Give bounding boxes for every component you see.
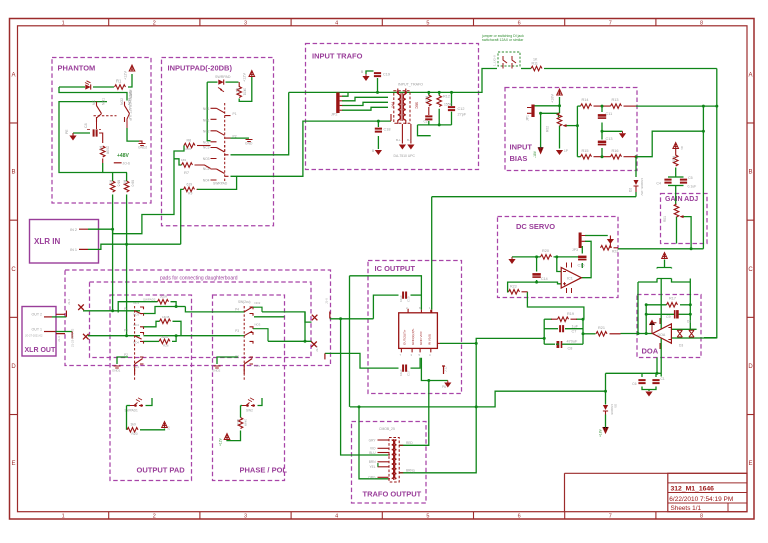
svg-text:R17: R17 xyxy=(669,297,676,301)
svg-text:R18: R18 xyxy=(672,156,676,162)
svg-text:D3: D3 xyxy=(679,344,683,348)
daughterboard pads inner box xyxy=(90,282,312,358)
transformer T2 output trafo xyxy=(392,439,397,480)
svg-text:P6: P6 xyxy=(442,385,446,389)
wire bias center bus xyxy=(576,106,578,157)
svg-text:GND VCC: GND VCC xyxy=(419,330,423,345)
svg-text:R12: R12 xyxy=(443,95,450,99)
wire pads row2 XLR OUT xyxy=(44,331,56,333)
resistor R1 xyxy=(115,85,126,90)
svg-text:6: 6 xyxy=(518,514,521,520)
svg-text:619: 619 xyxy=(187,183,193,187)
svg-text:R15: R15 xyxy=(582,149,589,153)
svg-text:C: C xyxy=(11,267,16,273)
resistor R15 xyxy=(581,154,592,159)
wire gain pot to rail xyxy=(683,217,691,249)
svg-text:SEC: SEC xyxy=(415,102,419,109)
wire DOA out down xyxy=(656,358,658,374)
transformer T1 input trafo xyxy=(398,89,406,125)
wire R10 top xyxy=(428,92,430,95)
wire P3 row to input trafo top xyxy=(231,92,289,154)
diodes D8 D9 DOA xyxy=(677,330,682,337)
svg-text:1uF: 1uF xyxy=(572,325,579,329)
svg-text:2U: 2U xyxy=(167,426,171,430)
wire to DOA output caps xyxy=(606,372,662,374)
wire swrpad xyxy=(207,81,217,83)
svg-text:GND: GND xyxy=(245,142,253,146)
T2 yel jog xyxy=(377,463,379,467)
ground GND2 phase xyxy=(214,366,221,368)
svg-text:D2: D2 xyxy=(629,188,633,192)
diode LED SWRPAD inputpad xyxy=(218,80,223,85)
wire phase rows inner xyxy=(253,307,262,312)
svg-text:R2: R2 xyxy=(235,88,239,92)
svg-text:JP1: JP1 xyxy=(526,115,530,121)
wire R20 to arrow xyxy=(140,429,165,430)
wire R13 to +12V xyxy=(227,431,241,441)
PHANTOM box xyxy=(52,58,151,204)
svg-text:NO2: NO2 xyxy=(255,301,261,305)
wire R7 tap xyxy=(174,159,182,165)
wire pad row2 xyxy=(88,335,140,337)
svg-text:B-L: B-L xyxy=(396,138,401,142)
svg-text:NC1: NC1 xyxy=(133,365,139,369)
wire R19 block right bus xyxy=(582,319,584,344)
svg-text:U1: U1 xyxy=(680,146,684,150)
pin J1-1 xyxy=(65,311,67,317)
svg-text:21-23-2051-02: 21-23-2051-02 xyxy=(71,328,75,347)
resistor R20 xyxy=(541,255,552,260)
wire R19 block left bus xyxy=(543,319,545,344)
resistor R4 xyxy=(100,146,105,157)
DC SERVO box xyxy=(498,217,619,298)
connector JP1 xyxy=(531,105,534,118)
connector JP2 xyxy=(336,93,339,114)
svg-text:D: D xyxy=(748,364,753,370)
wire IC out row xyxy=(440,342,476,344)
svg-text:XLR OUT: XLR OUT xyxy=(25,347,56,354)
node trafo red riser xyxy=(427,379,430,382)
wire DOA output row xyxy=(621,333,653,335)
switch SW2 phase xyxy=(242,403,255,406)
IC U1 output body xyxy=(399,313,438,349)
svg-text:NC4: NC4 xyxy=(133,323,139,327)
svg-text:IC OUTPUT: IC OUTPUT xyxy=(375,264,416,273)
svg-text:R13: R13 xyxy=(612,98,619,102)
ground C11C13 tap xyxy=(619,133,626,138)
svg-text:2: 2 xyxy=(153,514,156,520)
capacitor C13 xyxy=(598,141,606,145)
wire IC pin to gnd xyxy=(421,358,447,381)
svg-text:ORG: ORG xyxy=(368,476,376,480)
svg-text:6/22/2010 7:54:19 PM: 6/22/2010 7:54:19 PM xyxy=(669,496,733,503)
wire R6 top xyxy=(126,173,128,182)
resistor R11 xyxy=(531,66,542,71)
wire phase P2 gnd xyxy=(217,357,238,364)
svg-text:R5: R5 xyxy=(109,180,113,184)
wire XLR IN pin2 xyxy=(88,228,113,230)
svg-text:J 1J: J 1J xyxy=(444,366,448,372)
node gain pot tap xyxy=(690,247,693,250)
resistor R2 xyxy=(237,87,242,98)
wire pads row1 XLR OUT xyxy=(44,316,52,318)
svg-text:J1-5: J1-5 xyxy=(315,346,319,352)
svg-text:SWRPAD: SWRPAD xyxy=(213,182,228,186)
supply +18V down arrow xyxy=(603,427,609,433)
supply arrow +18V R18 xyxy=(673,143,679,149)
svg-text:8: 8 xyxy=(700,20,703,26)
wire phase row1 in xyxy=(240,311,244,313)
PHASE/POL box xyxy=(213,295,285,481)
wire trafo pri bottom jog xyxy=(390,114,392,121)
wire JP3 pin1 xyxy=(585,235,608,237)
node brn riser top xyxy=(475,342,478,345)
svg-text:68-0: 68-0 xyxy=(131,180,135,187)
ground under C18 xyxy=(375,150,382,155)
pin JP4 xyxy=(442,366,445,374)
svg-text:Sheets 1/1: Sheets 1/1 xyxy=(671,505,702,512)
svg-text:C7: C7 xyxy=(572,330,577,334)
resistor R25 loop xyxy=(158,299,169,304)
INPUT TRAFO box xyxy=(306,44,479,170)
svg-text:BRNg: BRNg xyxy=(406,469,415,473)
svg-text:GAIN ADJ: GAIN ADJ xyxy=(665,196,698,203)
connector XLR OUT box xyxy=(22,307,56,357)
svg-text:249R: 249R xyxy=(244,419,248,427)
ground arrows under T1 xyxy=(399,145,406,150)
svg-text:R13: R13 xyxy=(236,419,240,425)
svg-text:+18V: +18V xyxy=(599,428,603,437)
svg-text:C17: C17 xyxy=(407,370,411,376)
ground ic output xyxy=(444,383,451,388)
svg-text:C2: C2 xyxy=(424,120,428,124)
T2 right pins xyxy=(399,445,403,473)
resistor R22 servo xyxy=(601,246,612,251)
node IN1 junction xyxy=(125,243,128,246)
svg-text:1: 1 xyxy=(62,514,65,520)
wire R2 top xyxy=(238,82,240,87)
wire R19 row xyxy=(544,318,552,320)
op-amp U2 DOA (points left) xyxy=(653,324,672,343)
svg-text:P1: P1 xyxy=(233,112,237,116)
output pad switch link xyxy=(134,306,136,380)
wire input bias out row xyxy=(636,105,717,107)
svg-text:1_IJO-9: 1_IJO-9 xyxy=(493,55,497,66)
svg-text:5: 5 xyxy=(426,514,429,520)
wire C12 bottom xyxy=(451,112,453,125)
resistor R9 xyxy=(184,187,195,192)
wire IN1 riser to R9 xyxy=(181,189,184,244)
supply arrow C1C3 xyxy=(662,253,668,259)
wire IC input riser xyxy=(431,197,433,310)
svg-text:2: 2 xyxy=(153,20,156,26)
svg-text:1K06: 1K06 xyxy=(184,147,191,151)
resistor R13 xyxy=(611,104,622,109)
wire right rail down to DOA xyxy=(704,69,717,338)
ground under pot xyxy=(556,150,563,155)
svg-text:JO-6: JO-6 xyxy=(123,162,130,166)
wire R9 to P4 riser xyxy=(197,176,237,189)
capacitor C5 xyxy=(680,180,687,183)
svg-text:SWPAD2: SWPAD2 xyxy=(143,298,156,302)
svg-text:A: A xyxy=(11,72,15,78)
svg-text:C14: C14 xyxy=(541,277,548,281)
wire pad row1 exit xyxy=(185,307,240,312)
resistor R10 xyxy=(427,95,432,106)
wire IC OUTPUT left row1 xyxy=(330,316,332,318)
node C19 junction xyxy=(376,91,379,94)
supply +12V inputpad xyxy=(249,71,255,77)
wire C4C5 rails xyxy=(668,176,684,178)
svg-text:R02: R02 xyxy=(546,126,550,132)
row ticks left/right xyxy=(10,122,18,124)
svg-text:NC3: NC3 xyxy=(203,146,210,150)
wire R5 top xyxy=(112,173,114,182)
wire phantom sw2 to gnd xyxy=(127,128,139,141)
svg-text:R14: R14 xyxy=(582,98,589,102)
wire R12 bottom xyxy=(438,109,440,125)
jack dashed box xyxy=(498,52,520,66)
wire IC OUTPUT pads row1 entry xyxy=(254,316,285,318)
svg-text:392R: 392R xyxy=(161,335,169,339)
wire bias pot gnd xyxy=(559,126,561,149)
wire C14 vertical xyxy=(536,257,538,272)
wire IC bottom cap to pin xyxy=(411,358,421,368)
svg-text:OUT 1: OUT 1 xyxy=(31,328,42,332)
svg-text:JO-27-2021-02: JO-27-2021-02 xyxy=(25,334,43,338)
wire sw2 xyxy=(241,405,243,407)
wire R15/R16 out row xyxy=(636,131,703,157)
pin row to IC OUTPUT xyxy=(329,312,331,319)
wire servo arrow to R22 xyxy=(609,244,611,248)
svg-text:R20: R20 xyxy=(132,432,138,436)
svg-text:RED: RED xyxy=(406,441,413,445)
svg-text:A: A xyxy=(748,72,752,78)
svg-text:27pF: 27pF xyxy=(458,113,467,117)
wire R5 to XLR IN / pad row1 riser xyxy=(112,195,114,311)
svg-text:TRAFO OUTPUT: TRAFO OUTPUT xyxy=(363,490,422,499)
svg-text:7: 7 xyxy=(609,514,612,520)
DOA box xyxy=(637,295,701,358)
wire +48V node xyxy=(102,163,104,173)
svg-text:R6: R6 xyxy=(123,180,127,184)
svg-text:GND(3)(4)5-: GND(3)(4)5- xyxy=(411,328,415,345)
ground GND1 output pad xyxy=(114,366,121,368)
svg-text:C9: C9 xyxy=(666,315,670,319)
ground GND inputpad xyxy=(246,140,253,142)
wire phase row2 in xyxy=(240,335,244,337)
svg-text:+18V: +18V xyxy=(551,94,555,103)
pad pin row3 xyxy=(324,353,326,359)
svg-text:GND2: GND2 xyxy=(138,146,147,150)
wire pad P2 gnd xyxy=(117,357,128,364)
wire servo R20 row xyxy=(512,256,541,258)
svg-text:B: B xyxy=(372,149,374,153)
wire D2 to ic riser row xyxy=(635,192,637,197)
svg-text:C4: C4 xyxy=(656,182,661,186)
svg-text:R9: R9 xyxy=(188,192,192,196)
svg-text:J1-3: J1-3 xyxy=(57,336,61,342)
wire R6 to XLR IN / pad row2 riser xyxy=(126,195,128,336)
svg-text:GND1: GND1 xyxy=(112,369,121,373)
ic out stub xyxy=(437,342,440,344)
wire D2 feed xyxy=(635,157,637,177)
wire C11 C13 bus xyxy=(601,106,603,112)
ground at C19 xyxy=(362,76,369,81)
IC OUTPUT box xyxy=(368,261,462,394)
node pad row1 xyxy=(111,309,114,312)
svg-text:JP2: JP2 xyxy=(331,113,338,117)
wire trafo red riser xyxy=(399,381,429,446)
wire phantom left rail xyxy=(59,102,127,173)
wire C7 row xyxy=(544,328,558,330)
svg-text:R16: R16 xyxy=(612,149,619,153)
capacitor C14 xyxy=(532,273,540,277)
svg-text:pads for connecting daughterbo: pads for connecting daughterboard xyxy=(160,276,238,282)
svg-text:NO3: NO3 xyxy=(255,323,261,327)
svg-text:R19: R19 xyxy=(567,312,574,316)
resistor R23 xyxy=(509,290,520,295)
svg-text:C8: C8 xyxy=(84,123,88,128)
ground DOA caps xyxy=(645,392,652,397)
svg-text:SW(2cu): SW(2cu) xyxy=(238,300,250,304)
IC pins bottom xyxy=(401,348,430,352)
wire swpad1 xyxy=(127,405,131,407)
wire R15 row xyxy=(577,156,580,158)
resistor R17 xyxy=(667,303,678,308)
resistor R13 phase xyxy=(238,418,243,429)
capacitor C8 phantom xyxy=(94,129,97,136)
svg-text:R10: R10 xyxy=(425,96,429,102)
svg-text:+12V: +12V xyxy=(124,71,128,80)
svg-text:IN 1: IN 1 xyxy=(70,248,77,252)
X pads XLR OUT row1 xyxy=(78,304,84,310)
wire R21 to DOA xyxy=(610,333,621,335)
svg-text:GND2: GND2 xyxy=(212,369,221,373)
wire R18 chain xyxy=(675,168,677,175)
resistor R7 xyxy=(182,163,193,168)
wire long row to IC OUTPUT riser xyxy=(432,196,636,198)
wire R14 row xyxy=(577,105,580,107)
svg-text:C10: C10 xyxy=(407,296,411,302)
resistor R16 xyxy=(611,154,622,159)
wire C8 row xyxy=(544,343,555,345)
svg-text:PE: PE xyxy=(65,129,69,134)
wire phantom cap to ground xyxy=(73,132,90,134)
svg-text:D: D xyxy=(11,364,16,370)
supply -18V JP1 xyxy=(538,147,543,153)
capacitor C12 xyxy=(448,107,455,110)
wire R1 to +12V xyxy=(128,74,132,87)
svg-text:PRI: PRI xyxy=(391,102,395,108)
wire block out to R21 xyxy=(583,333,596,335)
svg-text:SWRPAD: SWRPAD xyxy=(215,75,231,79)
X pads right side xyxy=(312,315,318,321)
wire trafo sec gnd stubs xyxy=(401,124,403,144)
output pad P2 contact xyxy=(135,357,144,374)
node yel tap xyxy=(358,405,361,408)
svg-text:C6: C6 xyxy=(632,382,636,386)
svg-text:J1-4: J1-4 xyxy=(67,299,71,305)
resistor R6 xyxy=(124,181,129,192)
svg-text:BIAS: BIAS xyxy=(510,154,528,163)
node C18 tap xyxy=(377,120,380,123)
wire gain pot bottom xyxy=(676,217,678,244)
svg-text:IN V1(6): IN V1(6) xyxy=(427,334,431,345)
svg-text:C13: C13 xyxy=(606,137,613,141)
resistor R18 xyxy=(673,155,678,166)
svg-text:0.1uF: 0.1uF xyxy=(688,185,697,189)
svg-text:JP3: JP3 xyxy=(572,248,578,252)
svg-text:1P: 1P xyxy=(564,149,568,153)
svg-text:10uF: 10uF xyxy=(399,369,403,376)
wire R10 to C2 xyxy=(428,107,430,115)
capacitor C9 xyxy=(675,310,679,318)
resistor R21 out xyxy=(596,332,607,337)
wire P2 to gnd xyxy=(231,137,250,139)
wire phantom top row xyxy=(59,86,85,88)
svg-text:XLR IN: XLR IN xyxy=(34,237,60,246)
svg-text:C12: C12 xyxy=(458,107,465,111)
svg-text:B-L: B-L xyxy=(407,138,412,142)
svg-text:16O8: 16O8 xyxy=(162,315,170,319)
svg-text:P4: P4 xyxy=(235,308,239,312)
svg-text:E: E xyxy=(748,461,752,467)
wire C12 top xyxy=(451,92,453,106)
wire bias pot top xyxy=(559,106,561,113)
supply +12V phase xyxy=(224,434,230,440)
wire servo inv input xyxy=(557,257,561,272)
svg-text:R1: R1 xyxy=(116,79,122,84)
svg-text:P3: P3 xyxy=(235,329,239,333)
svg-text:IC1: IC1 xyxy=(567,277,573,281)
GAIN ADJ box xyxy=(661,194,708,244)
wire pad row1 xyxy=(83,310,140,312)
wire brn riser xyxy=(399,343,476,472)
wire R18 top arrow xyxy=(675,149,677,156)
node trafo riser1 xyxy=(339,317,342,320)
wire servo R22 to gain pot rail xyxy=(618,248,703,250)
servo minus supply arrow xyxy=(607,239,614,244)
wire C18 top xyxy=(377,121,379,127)
svg-text:C18: C18 xyxy=(384,128,391,132)
pin J1-2 xyxy=(71,332,73,339)
wire phase row1 out to X pad xyxy=(262,312,312,322)
wire left feedback bus xyxy=(637,282,639,334)
svg-text:P4: P4 xyxy=(124,307,128,311)
svg-text:YEL: YEL xyxy=(369,465,375,469)
svg-text:J1-6: J1-6 xyxy=(325,298,329,304)
svg-text:R23: R23 xyxy=(510,285,517,289)
wire C4C5 to gain pot xyxy=(675,188,677,204)
wire mid-right riser xyxy=(702,106,704,249)
resistor R20 pad xyxy=(127,428,138,433)
resistor R27 loop xyxy=(160,319,171,324)
wire C13 gnd tap xyxy=(602,130,623,132)
supply +18V bias xyxy=(557,89,563,95)
svg-text:D8: D8 xyxy=(687,320,691,324)
svg-text:NO4: NO4 xyxy=(133,341,139,345)
capacitor C16 xyxy=(652,380,659,383)
svg-text:B: B xyxy=(11,170,15,176)
wire R11 to right rail xyxy=(544,68,717,70)
wire input trafo top rail xyxy=(289,69,497,93)
wire C1 down bus xyxy=(660,279,662,377)
title block xyxy=(565,473,748,511)
svg-text:R4: R4 xyxy=(99,146,103,151)
TRAFO OUTPUT box xyxy=(352,422,427,504)
svg-text:switchcraft 12AX or similar: switchcraft 12AX or similar xyxy=(482,38,524,42)
